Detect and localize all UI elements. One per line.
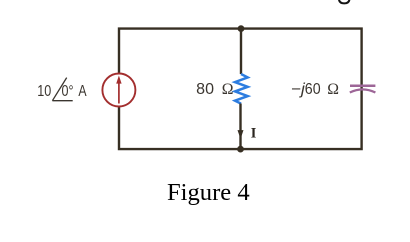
wire bbox=[119, 29, 362, 150]
svg-text:0°: 0° bbox=[62, 83, 74, 100]
wire (bottom of resistor branch, current arrow shaft) bbox=[239, 104, 241, 150]
resistor R1 80Ω bbox=[235, 74, 248, 104]
svg-text:−j: −j bbox=[291, 81, 305, 98]
svg-text:I: I bbox=[251, 126, 257, 142]
svg-text:A: A bbox=[78, 83, 87, 100]
current source I1 bbox=[102, 74, 135, 107]
label 10∠0° A bbox=[37, 78, 87, 101]
node B (bottom junction) bbox=[237, 146, 244, 153]
svg-text:Figure 4: Figure 4 bbox=[167, 179, 250, 206]
label −j60 Ω bbox=[291, 81, 339, 98]
partial letter g (cropped text above) bbox=[339, 0, 350, 3]
capacitor C1 -j60Ω bbox=[350, 86, 376, 93]
svg-text:80: 80 bbox=[196, 81, 214, 98]
svg-text:60: 60 bbox=[305, 81, 321, 98]
wire (top of resistor branch) bbox=[240, 29, 242, 74]
current arrow I bbox=[238, 131, 243, 138]
node A (top junction) bbox=[238, 25, 245, 32]
svg-text:10: 10 bbox=[37, 83, 51, 100]
label 80 Ω bbox=[196, 81, 233, 98]
svg-text:Ω: Ω bbox=[222, 81, 234, 98]
svg-text:Ω: Ω bbox=[327, 81, 339, 98]
